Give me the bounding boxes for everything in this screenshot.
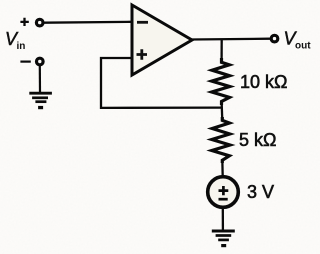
wire from + input terminal to op-amp inverting input — [44, 21, 133, 24]
ground (input side) — [29, 93, 52, 109]
resistor R2 5 kOhm — [212, 117, 230, 163]
output wire — [191, 38, 270, 41]
wire 5k to battery — [221, 159, 224, 177]
svg-text:10 kΩ: 10 kΩ — [240, 72, 287, 92]
wire battery to ground — [222, 208, 224, 230]
minus sign at input — [20, 60, 30, 62]
op-amp U1 — [132, 5, 192, 75]
svg-text:in: in — [17, 41, 26, 52]
op-amp minus mark — [137, 21, 148, 24]
svg-text:out: out — [295, 41, 311, 52]
plus sign at input — [20, 18, 28, 26]
battery minus mark — [219, 198, 228, 201]
resistor R1 10 kOhm — [212, 58, 230, 105]
op-amp plus mark — [137, 49, 148, 59]
wire terminal to ground — [39, 66, 41, 93]
wire between resistors — [221, 104, 224, 121]
input terminal - (circle) — [37, 58, 44, 65]
battery source 3V (circle) — [208, 177, 239, 208]
feedback wire from non-inverting input to resistor junction — [101, 58, 222, 108]
svg-text:3 V: 3 V — [247, 182, 274, 202]
input terminal + (circle) — [36, 19, 43, 26]
battery plus mark — [219, 186, 229, 195]
wire node to 10k resistor — [220, 39, 222, 60]
svg-text:5 kΩ: 5 kΩ — [239, 130, 276, 150]
output terminal (circle) — [271, 35, 278, 42]
ground (bottom) — [212, 231, 235, 247]
